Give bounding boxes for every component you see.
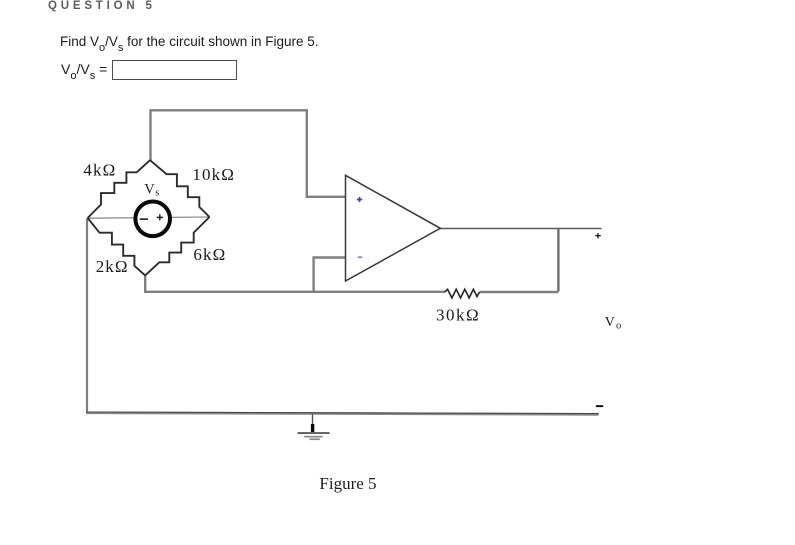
- svg-text:Figure 5: Figure 5: [319, 474, 376, 493]
- svg-text:2kΩ: 2kΩ: [96, 257, 129, 276]
- svg-text:4kΩ: 4kΩ: [83, 161, 116, 180]
- svg-text:6kΩ: 6kΩ: [193, 245, 226, 264]
- svg-text:s: s: [155, 188, 159, 199]
- svg-text:10kΩ: 10kΩ: [192, 165, 235, 184]
- svg-text:o: o: [616, 321, 621, 332]
- svg-text:V: V: [144, 181, 155, 197]
- svg-text:V: V: [605, 315, 615, 330]
- svg-text:30kΩ: 30kΩ: [436, 305, 480, 324]
